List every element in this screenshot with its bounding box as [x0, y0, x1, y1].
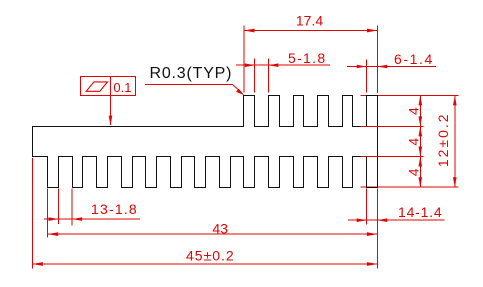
- svg-text:4: 4: [405, 168, 421, 176]
- dimension line 12±0.2 (vertical, x=454.8): [454, 95, 456, 187]
- right master extension line x=377.4 (serves 14-1.4, 43, 45): [376, 189, 378, 269]
- dimension line 5-1.8 with outside arrows: [236, 64, 330, 66]
- red extension line level 187.2: [361, 186, 459, 188]
- flatness feature control frame: [81, 76, 136, 95]
- dimension 14-1.4 extension lines: [366, 189, 368, 225]
- svg-text:R0.3(TYP): R0.3(TYP): [150, 65, 233, 82]
- svg-text:13-1.8: 13-1.8: [91, 201, 138, 217]
- svg-text:5-1.8: 5-1.8: [288, 50, 326, 66]
- svg-text:12±0.2: 12±0.2: [435, 112, 451, 167]
- svg-text:4: 4: [405, 107, 421, 115]
- leader underline of R0.3(TYP): [145, 84, 233, 86]
- dimension line 6-1.4 with outside arrows: [347, 66, 436, 68]
- red extension line level 126.4: [361, 125, 424, 127]
- dimension 43 left extension line (x=47.7): [47, 189, 49, 238]
- dimension line 45±0.2: [32, 263, 377, 265]
- svg-text:0.1: 0.1: [113, 80, 131, 95]
- dimension 13-1.8 extension lines: [57, 189, 59, 225]
- svg-text:14-1.4: 14-1.4: [398, 204, 443, 220]
- dimension line 14-1.4 with outside arrows: [348, 219, 445, 221]
- svg-text:4: 4: [405, 138, 421, 146]
- dimension line 4 (vertical, x=420.3): [419, 95, 421, 187]
- dimension 17.4 / right edge extension line (x=377.4): [376, 26, 378, 94]
- dimension 6-1.4 extension line (x=366.67): [366, 60, 368, 93]
- svg-text:43: 43: [212, 220, 228, 236]
- flatness parallelogram symbol: [86, 82, 107, 91]
- dimension line 13-1.8 with outside arrows: [44, 218, 140, 220]
- dimension 45±0.2 left extension line (x=32.3): [31, 158, 33, 269]
- leader diagonal to fin corner with arrow: [233, 85, 242, 93]
- heatsink profile outline: [33, 96, 378, 188]
- svg-text:6-1.4: 6-1.4: [394, 51, 434, 67]
- svg-text:17.4: 17.4: [296, 13, 323, 29]
- dimension line 17.4: [244, 30, 377, 32]
- red extension overlap level 156.5: [361, 156, 367, 158]
- dimension 17.4 extension line left (x=244): [243, 26, 245, 93]
- dimension 5-1.8 extension lines: [254, 59, 256, 93]
- svg-text:45±0.2: 45±0.2: [186, 247, 235, 263]
- leader from frame down to top face: [110, 96, 112, 125]
- red extension overlap level 126.4: [361, 125, 367, 127]
- dimension line 43: [48, 233, 378, 235]
- red extension lines right side: level 95.4: [361, 94, 459, 96]
- red extension line level 156.5: [361, 156, 424, 158]
